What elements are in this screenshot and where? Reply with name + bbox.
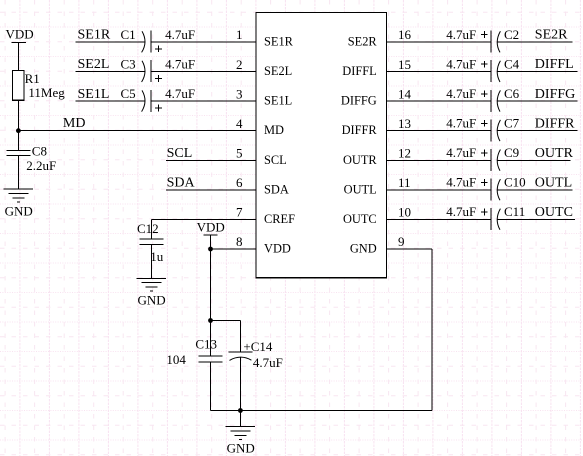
svg-text:13: 13 xyxy=(398,116,411,131)
svg-text:C12: C12 xyxy=(137,221,159,236)
svg-text:7: 7 xyxy=(236,205,243,220)
svg-text:4.7uF: 4.7uF xyxy=(446,175,476,190)
svg-text:OUTL: OUTL xyxy=(535,176,572,191)
svg-text:OUTC: OUTC xyxy=(535,205,573,220)
svg-text:4.7uF: 4.7uF xyxy=(165,86,195,101)
svg-text:C9: C9 xyxy=(504,145,519,160)
svg-text:4.7uF: 4.7uF xyxy=(253,355,283,370)
svg-text:4: 4 xyxy=(236,116,243,131)
svg-text:SE2R: SE2R xyxy=(535,28,568,43)
svg-text:SE1R: SE1R xyxy=(264,35,294,49)
svg-text:GND: GND xyxy=(227,441,255,456)
svg-text:OUTC: OUTC xyxy=(343,212,377,226)
svg-text:1u: 1u xyxy=(150,249,164,264)
svg-text:OUTL: OUTL xyxy=(344,182,377,196)
svg-text:6: 6 xyxy=(236,175,243,190)
svg-text:R1: R1 xyxy=(25,71,40,86)
svg-text:3: 3 xyxy=(236,86,243,101)
svg-text:GND: GND xyxy=(138,293,166,308)
svg-text:DIFFG: DIFFG xyxy=(341,94,377,108)
svg-text:16: 16 xyxy=(398,27,412,42)
svg-text:SCL: SCL xyxy=(167,146,193,161)
svg-text:4.7uF: 4.7uF xyxy=(446,204,476,219)
svg-text:4.7uF: 4.7uF xyxy=(446,56,476,71)
svg-text:C11: C11 xyxy=(504,204,525,219)
svg-text:DIFFL: DIFFL xyxy=(342,64,376,78)
svg-text:4.7uF: 4.7uF xyxy=(446,86,476,101)
svg-text:C3: C3 xyxy=(121,56,136,71)
svg-text:OUTR: OUTR xyxy=(343,153,377,167)
svg-text:SE2R: SE2R xyxy=(348,35,378,49)
svg-text:C10: C10 xyxy=(504,175,526,190)
svg-text:CREF: CREF xyxy=(264,212,295,226)
svg-text:104: 104 xyxy=(166,352,186,367)
svg-text:SE2L: SE2L xyxy=(264,64,292,78)
svg-text:VDD: VDD xyxy=(264,242,291,256)
svg-text:C5: C5 xyxy=(121,86,136,101)
svg-text:5: 5 xyxy=(236,146,243,161)
svg-text:4.7uF: 4.7uF xyxy=(165,56,195,71)
svg-text:4.7uF: 4.7uF xyxy=(446,27,476,42)
svg-text:4.7uF: 4.7uF xyxy=(165,27,195,42)
svg-text:DIFFR: DIFFR xyxy=(535,116,575,131)
svg-text:11: 11 xyxy=(398,175,411,190)
svg-text:MD: MD xyxy=(264,123,284,137)
svg-text:DIFFL: DIFFL xyxy=(535,57,574,72)
svg-text:C7: C7 xyxy=(504,116,520,131)
svg-text:DIFFG: DIFFG xyxy=(535,87,575,102)
svg-text:14: 14 xyxy=(398,86,412,101)
svg-text:C4: C4 xyxy=(504,56,520,71)
svg-text:GND: GND xyxy=(5,203,33,218)
svg-text:DIFFR: DIFFR xyxy=(342,123,378,137)
svg-text:11Meg: 11Meg xyxy=(28,85,65,100)
svg-text:12: 12 xyxy=(398,146,411,161)
svg-text:VDD: VDD xyxy=(197,220,225,235)
svg-text:OUTR: OUTR xyxy=(535,146,574,161)
svg-text:C2: C2 xyxy=(504,27,519,42)
svg-text:C1: C1 xyxy=(121,27,136,42)
svg-text:4.7uF: 4.7uF xyxy=(446,145,476,160)
svg-text:VDD: VDD xyxy=(6,27,34,42)
svg-text:SE1L: SE1L xyxy=(78,87,110,102)
svg-text:8: 8 xyxy=(236,234,243,249)
svg-text:MD: MD xyxy=(63,116,86,131)
svg-text:10: 10 xyxy=(398,205,411,220)
svg-text:C6: C6 xyxy=(504,86,520,101)
svg-text:SDA: SDA xyxy=(264,182,289,196)
svg-text:GND: GND xyxy=(350,242,377,256)
svg-text:SE2L: SE2L xyxy=(78,57,110,72)
svg-text:15: 15 xyxy=(398,57,411,72)
svg-text:4.7uF: 4.7uF xyxy=(446,116,476,131)
svg-text:SE1R: SE1R xyxy=(78,28,111,43)
svg-text:9: 9 xyxy=(398,234,405,249)
svg-text:SCL: SCL xyxy=(264,153,287,167)
svg-text:C8: C8 xyxy=(32,143,47,158)
svg-text:2.2uF: 2.2uF xyxy=(26,158,56,173)
svg-text:SDA: SDA xyxy=(167,176,196,191)
svg-text:1: 1 xyxy=(236,27,243,42)
svg-text:C13: C13 xyxy=(195,337,217,352)
svg-text:+C14: +C14 xyxy=(243,339,273,354)
svg-text:2: 2 xyxy=(236,57,243,72)
svg-text:SE1L: SE1L xyxy=(264,94,292,108)
